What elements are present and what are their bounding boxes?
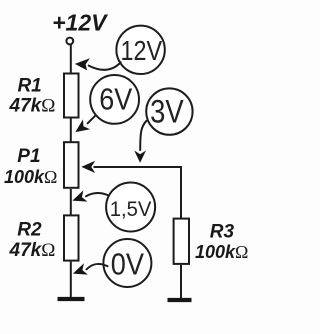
svg-text:R2: R2	[17, 219, 42, 240]
resistor R3	[174, 219, 189, 264]
potentiometer P1 wiper arrowhead	[81, 161, 95, 173]
svg-text:3V: 3V	[150, 93, 184, 129]
svg-text:100kΩ: 100kΩ	[195, 242, 248, 262]
value 100k ohm (P1)	[4, 167, 57, 187]
wire R2 to ground	[70, 262, 72, 298]
probe circle 3V	[146, 88, 192, 134]
wire terminal to R1	[70, 45, 72, 73]
label P1	[17, 146, 40, 167]
svg-text:6V: 6V	[99, 81, 132, 116]
value 100k ohm (R3)	[195, 242, 248, 262]
resistor R2	[64, 215, 79, 260]
svg-text:R1: R1	[17, 76, 41, 97]
svg-text:R3: R3	[210, 221, 235, 242]
wire R1 to P1	[70, 119, 72, 143]
label R3	[210, 221, 235, 242]
label R2	[17, 219, 42, 240]
probe circle 0V	[103, 239, 151, 287]
ground (left)	[58, 297, 85, 301]
ground (right)	[168, 298, 192, 302]
wire wiper to R3	[94, 167, 182, 219]
resistor R1	[64, 74, 79, 118]
svg-text:0V: 0V	[111, 247, 144, 282]
svg-text:P1: P1	[17, 146, 40, 167]
label R1	[17, 76, 41, 97]
probe arrow 0V	[73, 263, 108, 274]
svg-text:1,5V: 1,5V	[110, 197, 152, 221]
node +12V label	[52, 10, 108, 36]
probe circle 1,5V	[106, 183, 155, 232]
terminal +12V	[66, 38, 73, 45]
svg-text:+12V: +12V	[52, 10, 108, 36]
probe arrow 12V (tail)	[75, 58, 121, 70]
value 47k ohm (R2)	[9, 240, 56, 261]
probe arrow 1,5V	[72, 190, 108, 201]
probe circle 12V	[116, 26, 164, 74]
value 47k ohm (R1)	[9, 96, 56, 117]
wire R3 to ground	[180, 265, 182, 298]
svg-text:12V: 12V	[121, 35, 163, 66]
wire P1 to R2	[70, 189, 72, 215]
probe arrow 6V	[75, 115, 96, 132]
svg-text:47kΩ: 47kΩ	[9, 240, 56, 261]
probe arrow 3V	[134, 121, 146, 163]
potentiometer P1 body	[64, 142, 79, 188]
svg-text:47kΩ: 47kΩ	[9, 96, 56, 117]
svg-text:100kΩ: 100kΩ	[4, 167, 57, 187]
probe circle 6V	[90, 75, 139, 124]
